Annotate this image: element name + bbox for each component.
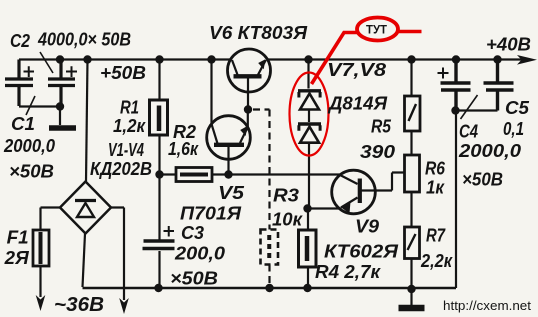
wire node to R2 bbox=[160, 173, 177, 175]
bridge rectifier V1-V4 bbox=[60, 182, 111, 234]
node rail C4 bbox=[452, 55, 460, 63]
svg-text:R3: R3 bbox=[273, 186, 299, 206]
svg-text:1,2к: 1,2к bbox=[113, 116, 146, 136]
svg-text:V9: V9 bbox=[355, 217, 379, 237]
wire R5 to R6 bbox=[410, 131, 412, 155]
node zener V9 R4 bbox=[303, 204, 311, 212]
wire zener node to V9 emitter bbox=[309, 198, 358, 209]
svg-text:+40В: +40В bbox=[486, 35, 531, 55]
wire rail to V7 bbox=[307, 60, 309, 89]
red annotation bbox=[290, 18, 422, 156]
svg-text:http://cxem.net: http://cxem.net bbox=[443, 298, 531, 313]
capacitor C5 bbox=[484, 60, 514, 111]
wire R1 to C3 bbox=[158, 135, 160, 240]
svg-text:2,2к: 2,2к bbox=[420, 251, 453, 271]
capacitor C2 bbox=[40, 52, 77, 106]
node ground rail bbox=[407, 285, 415, 293]
svg-text:C5: C5 bbox=[505, 98, 530, 118]
zener V7 bbox=[298, 91, 321, 122]
svg-text:+50В: +50В bbox=[100, 63, 146, 83]
wire dashed R3 to minus rail bbox=[268, 265, 270, 289]
wire R4 to minus rail bbox=[307, 267, 309, 288]
svg-text:R5: R5 bbox=[371, 117, 392, 137]
svg-text:10к: 10к bbox=[272, 210, 303, 230]
transistor V5 bbox=[207, 116, 251, 175]
node caps minus bbox=[56, 102, 64, 110]
resistor R7 bbox=[405, 227, 420, 259]
svg-text:V6 КТ803Я: V6 КТ803Я bbox=[209, 23, 308, 43]
node rail V7 bbox=[304, 55, 312, 63]
svg-text:C2: C2 bbox=[10, 31, 30, 51]
svg-text:200,0: 200,0 bbox=[174, 244, 225, 264]
resistor R5 bbox=[405, 96, 421, 131]
chassis bar under C1 C2 bbox=[49, 125, 76, 131]
wire R7 to ground node bbox=[410, 259, 412, 290]
svg-text:R1: R1 bbox=[120, 98, 139, 118]
resistor R6 bbox=[405, 155, 420, 192]
capacitor C1 bbox=[5, 60, 35, 116]
wire top-right +40V rail bbox=[267, 58, 528, 60]
transistor V9 bbox=[332, 170, 405, 214]
wire bottom minus rail bbox=[83, 287, 457, 290]
wire bridge right to AC arrow bbox=[110, 208, 124, 301]
node rail R1 bbox=[155, 55, 163, 63]
svg-text:390: 390 bbox=[360, 142, 395, 162]
svg-text:×50В: ×50В bbox=[462, 170, 503, 190]
capacitor C3 bbox=[143, 226, 175, 288]
svg-text:C3: C3 bbox=[181, 223, 204, 243]
red leader line left bbox=[312, 33, 358, 85]
node R4 rail bbox=[303, 284, 311, 292]
svg-text:×50В: ×50В bbox=[9, 162, 54, 182]
svg-text:C4: C4 bbox=[459, 122, 478, 142]
node rail R5 bbox=[407, 55, 415, 63]
resistor R1 bbox=[150, 100, 168, 135]
wire bridge bottom to minus rail bbox=[83, 234, 86, 288]
node rail C2 bbox=[56, 55, 64, 63]
wire rail to V5 collector bbox=[210, 60, 212, 125]
wire zener node to R4 bbox=[307, 209, 309, 231]
svg-text:F1: F1 bbox=[7, 228, 29, 248]
svg-text:V7,V8: V7,V8 bbox=[327, 60, 386, 80]
svg-text:~36В: ~36В bbox=[54, 294, 104, 316]
wire bridge left to fuse bbox=[41, 208, 61, 231]
wire right riser to C4 C5 node bbox=[455, 111, 457, 289]
svg-text:C1: C1 bbox=[11, 114, 35, 134]
wire rail to R5 bbox=[410, 60, 412, 97]
wire caps to minus bar bbox=[19, 107, 60, 126]
wire R6 to R7 bbox=[410, 192, 412, 227]
red ellipse around V7 V8 bbox=[290, 73, 329, 156]
capacitor C4 bbox=[438, 60, 478, 120]
svg-text:V5: V5 bbox=[218, 183, 245, 203]
node C4 C5 minus bbox=[451, 106, 459, 114]
svg-text:4000,0× 50В: 4000,0× 50В bbox=[37, 30, 131, 50]
zener V8 bbox=[298, 124, 321, 209]
svg-text:R4 2,7к: R4 2,7к bbox=[315, 262, 381, 282]
svg-text:КТ602Я: КТ602Я bbox=[324, 242, 399, 262]
wire rail to bridge bbox=[86, 60, 88, 183]
resistor R4 bbox=[299, 230, 317, 267]
svg-text:R6: R6 bbox=[425, 159, 446, 179]
svg-text:2Я: 2Я bbox=[4, 248, 30, 268]
node rail C5 bbox=[493, 55, 501, 63]
wire C5 bottom to node bbox=[456, 109, 498, 111]
svg-text:R7: R7 bbox=[426, 226, 446, 246]
wire top-left +50V rail bbox=[19, 58, 232, 60]
node AC input 1 arrow bbox=[36, 295, 46, 311]
node output arrow bbox=[517, 55, 537, 65]
transistor V6 bbox=[228, 49, 271, 110]
node V5 base bbox=[224, 170, 232, 178]
wire V5 emitter to V6 base node bbox=[247, 110, 249, 128]
svg-text:ТУТ: ТУТ bbox=[366, 23, 388, 37]
node AC input 2 arrow bbox=[119, 298, 129, 314]
svg-text:2000,0: 2000,0 bbox=[3, 136, 55, 156]
resistor R2 bbox=[176, 168, 212, 182]
red TUT oval bbox=[357, 18, 398, 41]
svg-text:П701Я: П701Я bbox=[180, 204, 242, 224]
wire R2 to V9 collector bbox=[212, 175, 358, 185]
fuse F1 bbox=[33, 230, 49, 266]
svg-text:Д814Я: Д814Я bbox=[327, 94, 388, 114]
node rail bridge bbox=[83, 55, 91, 63]
wire dashed from V6 base node bbox=[253, 110, 270, 230]
node V6 base bbox=[244, 105, 252, 113]
svg-text:V1-V4: V1-V4 bbox=[108, 140, 144, 160]
node rail V5 bbox=[207, 55, 215, 63]
resistor R3 dashed bbox=[261, 230, 279, 265]
svg-text:1,6к: 1,6к bbox=[168, 139, 199, 159]
ground bbox=[399, 289, 425, 308]
svg-text:2000,0: 2000,0 bbox=[458, 141, 521, 161]
svg-text:×50В: ×50В bbox=[170, 269, 218, 289]
svg-text:КД202В: КД202В bbox=[90, 159, 152, 179]
node R3 rail bbox=[265, 284, 273, 292]
wire fuse to AC arrow bbox=[39, 266, 41, 297]
svg-text:0,1: 0,1 bbox=[503, 119, 524, 139]
wire rail to R1 bbox=[158, 60, 160, 101]
svg-text:1к: 1к bbox=[426, 178, 445, 198]
node R1 C3 R2 bbox=[155, 170, 163, 178]
red leader line right bbox=[398, 30, 422, 34]
node C3 rail bbox=[154, 284, 162, 292]
